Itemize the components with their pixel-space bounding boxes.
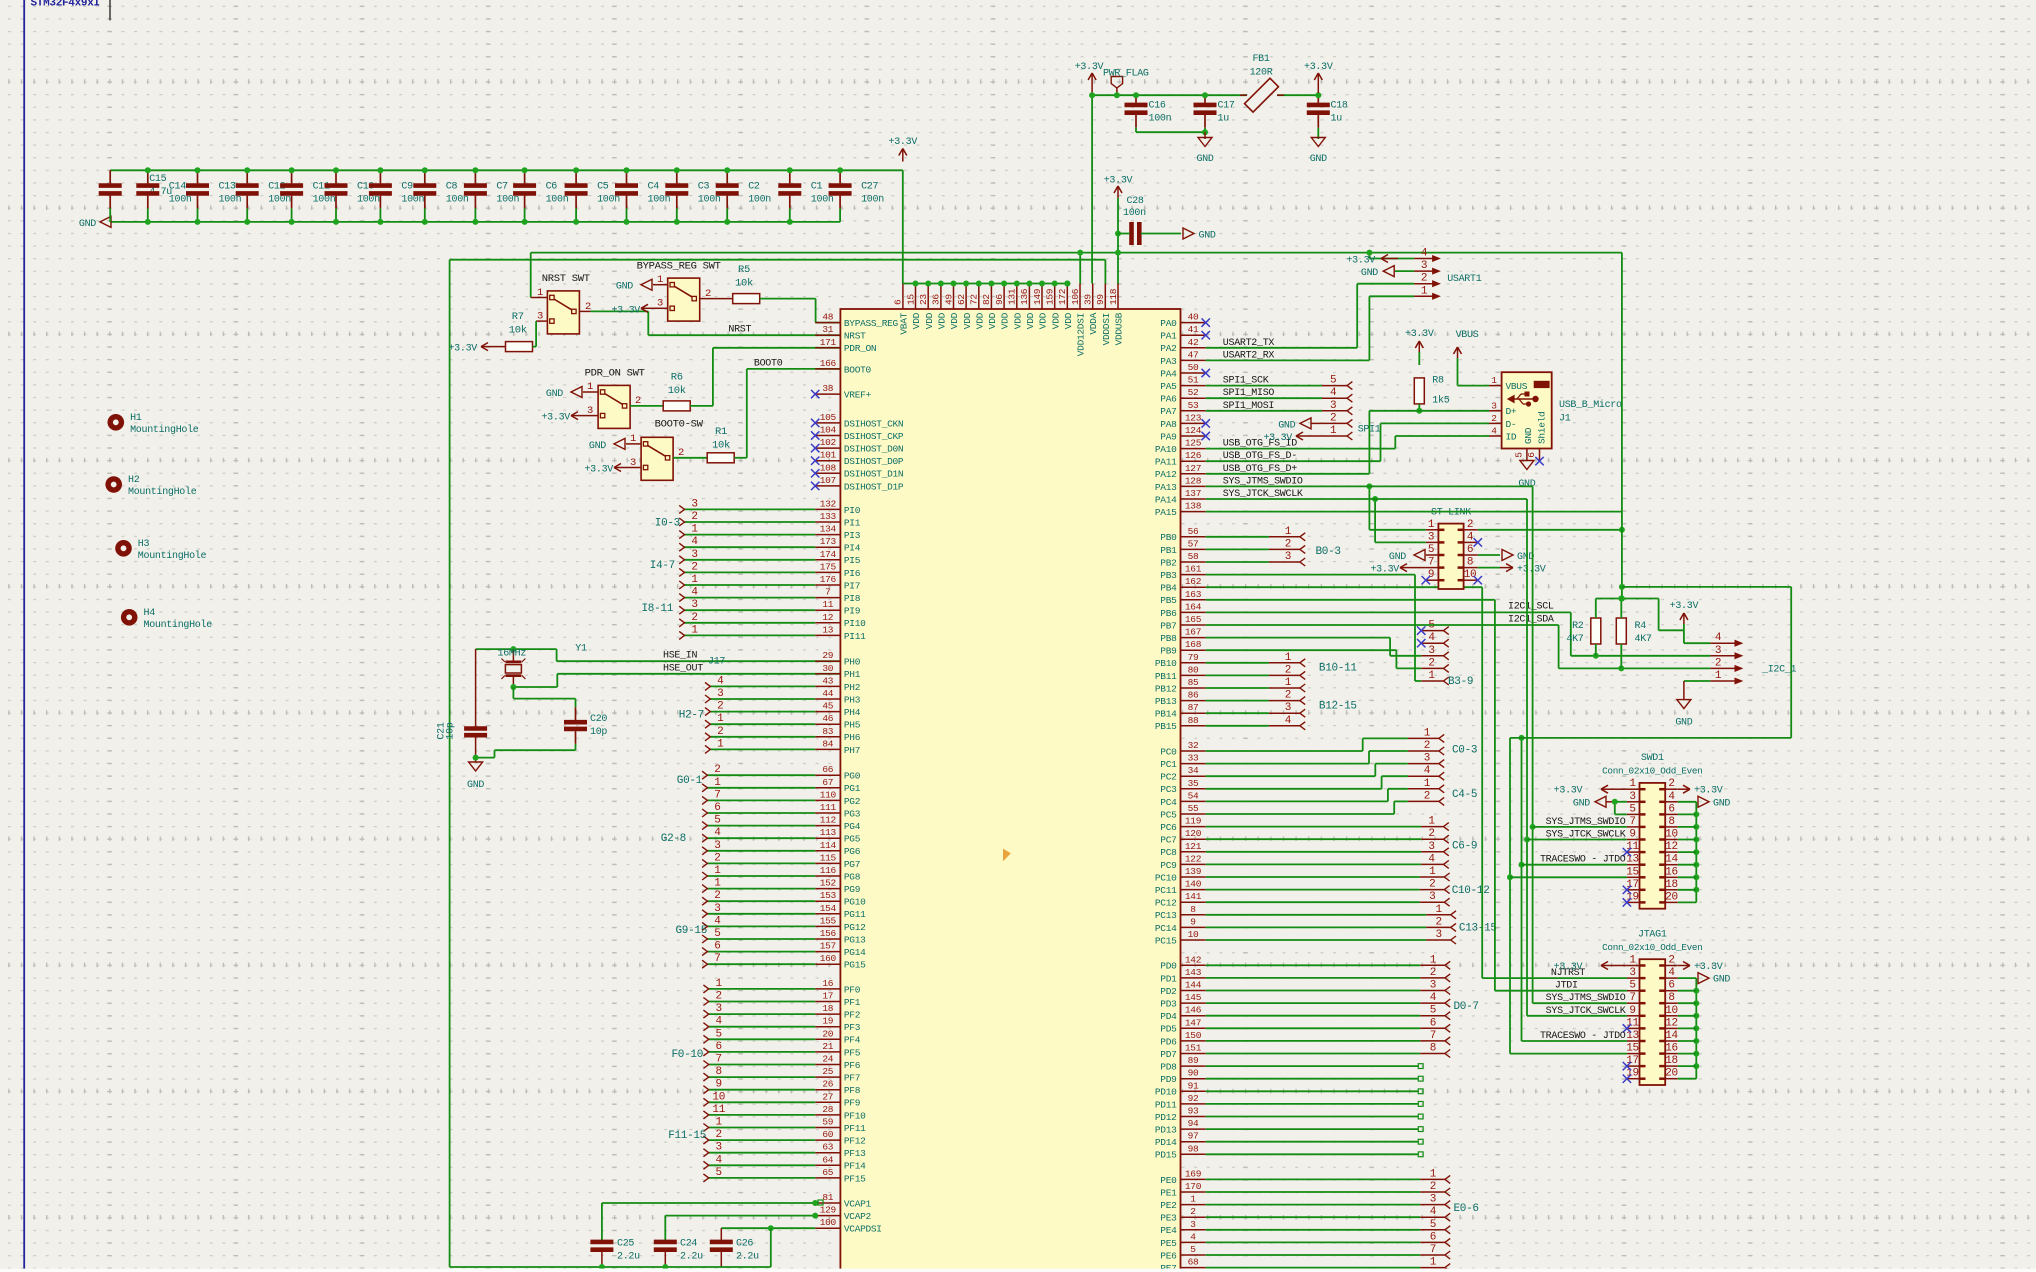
svg-text:168: 168 (1185, 639, 1202, 650)
svg-text:6: 6 (893, 299, 904, 305)
svg-text:PE2: PE2 (1160, 1200, 1177, 1211)
svg-text:4: 4 (1190, 1231, 1196, 1242)
svg-text:160: 160 (820, 953, 837, 964)
svg-text:H2: H2 (128, 475, 140, 486)
svg-text:GND: GND (1573, 798, 1590, 809)
svg-text:4: 4 (714, 915, 721, 927)
svg-text:PC2: PC2 (1160, 772, 1177, 783)
svg-text:5: 5 (1428, 544, 1434, 556)
svg-text:64: 64 (822, 1154, 833, 1165)
svg-text:104: 104 (820, 425, 837, 436)
svg-text:129: 129 (820, 1205, 837, 1216)
svg-text:13: 13 (1626, 854, 1639, 866)
svg-text:+3.3V: +3.3V (889, 137, 918, 148)
svg-text:R4: R4 (1635, 621, 1647, 632)
svg-text:122: 122 (1185, 853, 1202, 864)
svg-text:4: 4 (1467, 531, 1474, 543)
svg-text:100n: 100n (546, 195, 569, 206)
svg-text:176: 176 (820, 574, 837, 585)
svg-text:72: 72 (969, 294, 980, 305)
svg-text:+3.3V: +3.3V (1075, 62, 1104, 73)
svg-text:150: 150 (1185, 1030, 1202, 1041)
svg-text:8: 8 (1190, 904, 1196, 915)
svg-text:56: 56 (1188, 526, 1199, 537)
svg-text:1: 1 (717, 713, 724, 725)
svg-text:PC8: PC8 (1160, 847, 1177, 858)
svg-text:100n: 100n (698, 195, 721, 206)
svg-text:PC4: PC4 (1160, 797, 1177, 808)
svg-text:5: 5 (714, 815, 720, 827)
svg-text:1: 1 (1421, 285, 1428, 297)
svg-text:107: 107 (820, 475, 836, 486)
svg-text:10: 10 (1665, 829, 1678, 841)
svg-text:6: 6 (714, 802, 720, 814)
svg-text:C6: C6 (546, 182, 558, 193)
svg-text:VDDA: VDDA (1088, 312, 1099, 334)
svg-text:140: 140 (1185, 879, 1202, 890)
svg-text:43: 43 (822, 675, 833, 686)
svg-text:8: 8 (716, 1066, 722, 1078)
svg-text:GND: GND (1278, 420, 1295, 431)
svg-text:106: 106 (1070, 288, 1081, 305)
svg-text:2: 2 (1424, 790, 1430, 802)
svg-text:PH2: PH2 (844, 682, 861, 693)
svg-text:97: 97 (1188, 1131, 1199, 1142)
svg-text:PH5: PH5 (844, 720, 861, 731)
svg-text:4: 4 (714, 827, 721, 839)
svg-text:PA4: PA4 (1160, 368, 1177, 379)
svg-text:GND: GND (1523, 427, 1534, 444)
svg-text:PG3: PG3 (844, 808, 861, 819)
svg-text:1: 1 (714, 777, 721, 789)
svg-text:4: 4 (1421, 248, 1428, 260)
svg-text:PB5: PB5 (1160, 595, 1177, 606)
svg-text:9: 9 (1629, 829, 1635, 841)
svg-text:PB3: PB3 (1160, 570, 1177, 581)
svg-text:3: 3 (1421, 260, 1427, 272)
svg-text:6: 6 (1430, 1017, 1436, 1029)
svg-text:87: 87 (1188, 702, 1199, 713)
svg-text:119: 119 (1185, 816, 1202, 827)
svg-text:VDD12DSI: VDD12DSI (1076, 313, 1087, 356)
svg-text:1u: 1u (1218, 114, 1230, 125)
svg-text:1: 1 (691, 524, 698, 536)
svg-text:F11-15: F11-15 (668, 1130, 706, 1142)
svg-text:PF2: PF2 (844, 1010, 861, 1021)
svg-text:J1: J1 (1559, 414, 1571, 425)
svg-text:PDR_ON SWT: PDR_ON SWT (585, 368, 645, 380)
svg-text:I0-3: I0-3 (655, 518, 680, 530)
svg-text:5: 5 (1430, 1005, 1436, 1017)
svg-text:PD8: PD8 (1160, 1062, 1177, 1073)
svg-text:PI6: PI6 (844, 568, 861, 579)
svg-text:1: 1 (717, 738, 724, 750)
svg-text:G2-8: G2-8 (661, 833, 686, 845)
svg-text:STM32F4x9xI: STM32F4x9xI (31, 0, 100, 10)
svg-text:4: 4 (1668, 967, 1675, 979)
svg-text:2: 2 (1429, 879, 1435, 891)
svg-text:40: 40 (1188, 312, 1199, 323)
svg-text:PF3: PF3 (844, 1022, 861, 1033)
svg-text:C4-5: C4-5 (1452, 789, 1477, 801)
svg-text:D0-7: D0-7 (1454, 1001, 1479, 1013)
svg-text:10k: 10k (668, 385, 686, 397)
svg-text:6: 6 (716, 1041, 722, 1053)
svg-text:2: 2 (1491, 413, 1497, 424)
svg-text:13: 13 (822, 624, 833, 635)
svg-text:PC10: PC10 (1155, 872, 1177, 883)
svg-text:166: 166 (820, 358, 837, 369)
svg-text:PH3: PH3 (844, 694, 861, 705)
svg-text:154: 154 (820, 903, 837, 914)
svg-text:H4: H4 (144, 608, 156, 619)
svg-text:96: 96 (994, 294, 1005, 305)
svg-text:26: 26 (822, 1079, 833, 1090)
svg-text:VDD: VDD (1050, 312, 1061, 329)
svg-text:2: 2 (717, 726, 723, 738)
svg-text:7: 7 (1430, 1244, 1436, 1256)
svg-text:45: 45 (822, 701, 833, 712)
svg-text:PG5: PG5 (844, 834, 861, 845)
svg-text:1k5: 1k5 (1432, 395, 1449, 407)
svg-text:PE5: PE5 (1160, 1238, 1177, 1249)
svg-text:34: 34 (1188, 765, 1199, 776)
svg-text:C16: C16 (1149, 101, 1166, 112)
svg-text:+3.3V: +3.3V (1554, 786, 1583, 797)
svg-text:39: 39 (1083, 294, 1094, 305)
svg-text:4: 4 (1491, 426, 1497, 437)
svg-text:VDD: VDD (911, 312, 922, 329)
svg-text:VDD: VDD (1063, 312, 1074, 329)
svg-text:PC13: PC13 (1155, 910, 1177, 921)
svg-text:137: 137 (1185, 488, 1201, 499)
svg-text:2.2u: 2.2u (617, 1252, 640, 1263)
svg-text:100n: 100n (268, 195, 291, 206)
svg-text:25: 25 (822, 1066, 833, 1077)
svg-text:SYS_JTCK_SWCLK: SYS_JTCK_SWCLK (1546, 1006, 1626, 1017)
svg-text:PG1: PG1 (844, 783, 861, 794)
svg-text:4: 4 (1668, 791, 1675, 803)
svg-text:PD5: PD5 (1160, 1024, 1177, 1035)
svg-text:PA5: PA5 (1160, 381, 1177, 392)
svg-text:PD2: PD2 (1160, 986, 1177, 997)
svg-text:10k: 10k (509, 325, 527, 337)
svg-text:PF14: PF14 (844, 1161, 866, 1172)
svg-text:PI4: PI4 (844, 543, 861, 554)
svg-text:59: 59 (822, 1117, 833, 1128)
svg-text:PF15: PF15 (844, 1173, 866, 1184)
svg-text:1: 1 (1424, 778, 1431, 790)
svg-text:PB15: PB15 (1155, 721, 1177, 732)
svg-text:VDD: VDD (974, 312, 985, 329)
svg-text:15: 15 (1626, 866, 1639, 878)
svg-text:PG7: PG7 (844, 859, 860, 870)
svg-text:20: 20 (1665, 891, 1678, 903)
svg-text:PF4: PF4 (844, 1035, 861, 1046)
svg-text:3: 3 (1436, 929, 1442, 941)
svg-text:GND: GND (1713, 798, 1730, 809)
svg-text:159: 159 (1045, 288, 1056, 305)
svg-text:PI3: PI3 (844, 530, 861, 541)
svg-text:18: 18 (1665, 879, 1678, 891)
svg-text:PA14: PA14 (1155, 494, 1177, 505)
svg-text:2: 2 (1285, 538, 1291, 550)
svg-text:PWR_FLAG: PWR_FLAG (1103, 69, 1149, 80)
svg-text:GND: GND (1361, 268, 1378, 279)
svg-text:15: 15 (1626, 1043, 1639, 1055)
svg-text:TRACESWO - JTDO: TRACESWO - JTDO (1540, 855, 1626, 866)
svg-text:125: 125 (1185, 438, 1202, 449)
svg-text:G0-1: G0-1 (677, 775, 703, 787)
svg-text:3: 3 (691, 549, 697, 561)
svg-text:BYPASS_REG: BYPASS_REG (844, 318, 899, 329)
svg-text:4: 4 (691, 536, 698, 548)
svg-text:VDDUSB: VDDUSB (1114, 312, 1125, 345)
svg-text:I2C1_SDA: I2C1_SDA (1508, 615, 1554, 626)
svg-text:21: 21 (822, 1041, 833, 1052)
svg-text:60: 60 (822, 1129, 833, 1140)
svg-text:1: 1 (1285, 652, 1292, 664)
svg-text:F0-10: F0-10 (671, 1049, 703, 1061)
svg-text:C18: C18 (1331, 101, 1348, 112)
svg-text:14: 14 (1665, 1030, 1678, 1042)
svg-text:JTAG1: JTAG1 (1638, 930, 1667, 941)
svg-text:GND: GND (589, 441, 606, 452)
svg-text:C25: C25 (617, 1239, 634, 1250)
svg-text:PE0: PE0 (1160, 1175, 1177, 1186)
svg-text:2: 2 (691, 612, 697, 624)
svg-text:50: 50 (1188, 362, 1199, 373)
svg-text:DSIHOST_D0N: DSIHOST_D0N (844, 444, 903, 455)
svg-text:142: 142 (1185, 954, 1202, 965)
svg-text:11: 11 (712, 1104, 725, 1116)
svg-text:7: 7 (714, 953, 720, 965)
svg-text:93: 93 (1188, 1106, 1199, 1117)
svg-text:NRST SWT: NRST SWT (542, 273, 590, 285)
svg-text:PH0: PH0 (844, 657, 861, 668)
svg-text:3: 3 (1430, 980, 1436, 992)
svg-text:PE1: PE1 (1160, 1187, 1177, 1198)
svg-text:6: 6 (1430, 1231, 1436, 1243)
svg-text:12: 12 (1665, 841, 1678, 853)
svg-text:5: 5 (1330, 375, 1336, 387)
svg-text:3: 3 (691, 599, 697, 611)
svg-text:152: 152 (820, 878, 837, 889)
svg-text:PI9: PI9 (844, 606, 861, 617)
svg-text:2: 2 (1424, 740, 1430, 752)
svg-text:PA8: PA8 (1160, 419, 1177, 430)
svg-text:R6: R6 (671, 372, 683, 384)
svg-text:54: 54 (1188, 790, 1199, 801)
svg-text:PA3: PA3 (1160, 356, 1177, 367)
svg-text:10: 10 (712, 1091, 725, 1103)
svg-text:164: 164 (1185, 601, 1202, 612)
svg-text:VBAT: VBAT (899, 312, 910, 334)
svg-text:PF10: PF10 (844, 1110, 866, 1121)
svg-text:10p: 10p (446, 722, 457, 739)
svg-text:ST-LINK: ST-LINK (1431, 508, 1471, 519)
svg-text:157: 157 (820, 941, 836, 952)
svg-text:+3.3V: +3.3V (584, 465, 613, 476)
svg-text:VREF+: VREF+ (844, 390, 872, 401)
svg-text:NRST: NRST (844, 331, 866, 342)
svg-text:28: 28 (822, 1104, 833, 1115)
svg-text:66: 66 (822, 764, 833, 775)
svg-text:13: 13 (1626, 1030, 1639, 1042)
svg-text:7: 7 (1629, 816, 1635, 828)
svg-text:VDD: VDD (962, 312, 973, 329)
svg-text:FB1: FB1 (1252, 54, 1269, 65)
svg-text:2: 2 (1428, 828, 1434, 840)
svg-text:PI5: PI5 (844, 555, 861, 566)
svg-text:11: 11 (822, 599, 833, 610)
svg-text:1: 1 (1428, 670, 1435, 682)
svg-text:TRACESWO - JTDO: TRACESWO - JTDO (1540, 1031, 1626, 1042)
svg-text:1: 1 (1715, 670, 1722, 682)
svg-text:C10-12: C10-12 (1452, 885, 1490, 897)
svg-text:PC14: PC14 (1155, 923, 1177, 934)
svg-text:C2: C2 (748, 182, 760, 193)
svg-text:100n: 100n (748, 195, 771, 206)
svg-text:PA7: PA7 (1160, 406, 1176, 417)
svg-text:C27: C27 (861, 182, 878, 193)
svg-text:100n: 100n (496, 195, 519, 206)
svg-text:PD6: PD6 (1160, 1036, 1177, 1047)
svg-text:47: 47 (1188, 349, 1199, 360)
svg-text:123: 123 (1185, 412, 1202, 423)
svg-text:PC15: PC15 (1155, 935, 1177, 946)
svg-text:DSIHOST_D1P: DSIHOST_D1P (844, 481, 904, 492)
svg-text:3: 3 (1190, 1219, 1196, 1230)
svg-text:3: 3 (1330, 400, 1336, 412)
svg-text:162: 162 (1185, 576, 1202, 587)
svg-text:10p: 10p (590, 727, 607, 738)
svg-text:12: 12 (1665, 1017, 1678, 1029)
svg-text:9: 9 (1629, 1005, 1635, 1017)
svg-text:PF5: PF5 (844, 1047, 861, 1058)
svg-text:81: 81 (822, 1192, 833, 1203)
svg-text:67: 67 (822, 777, 833, 788)
svg-text:C8: C8 (446, 182, 458, 193)
svg-text:2: 2 (1436, 916, 1442, 928)
svg-text:4: 4 (1430, 992, 1437, 1004)
svg-text:PD14: PD14 (1155, 1137, 1177, 1148)
svg-text:144: 144 (1185, 980, 1202, 991)
svg-text:D-: D- (1506, 419, 1517, 430)
svg-text:2: 2 (717, 701, 723, 713)
svg-text:3: 3 (1430, 1194, 1436, 1206)
svg-text:PB11: PB11 (1155, 671, 1177, 682)
svg-text:PC0: PC0 (1160, 746, 1177, 757)
svg-text:PG0: PG0 (844, 771, 861, 782)
svg-text:141: 141 (1185, 891, 1202, 902)
svg-text:100: 100 (820, 1217, 837, 1228)
svg-text:2: 2 (714, 890, 720, 902)
svg-text:51: 51 (1188, 375, 1199, 386)
svg-text:PC6: PC6 (1160, 822, 1177, 833)
svg-text:6: 6 (1467, 544, 1473, 556)
svg-text:PA12: PA12 (1155, 469, 1177, 480)
svg-text:65: 65 (822, 1167, 833, 1178)
svg-text:PC7: PC7 (1160, 835, 1176, 846)
svg-text:GND: GND (1713, 975, 1730, 986)
svg-text:+3.3V: +3.3V (1694, 786, 1723, 797)
svg-text:4: 4 (1285, 715, 1292, 727)
svg-text:PI1: PI1 (844, 517, 861, 528)
svg-text:10: 10 (1665, 1005, 1678, 1017)
svg-text:DSIHOST_CKN: DSIHOST_CKN (844, 418, 903, 429)
svg-text:B12-15: B12-15 (1319, 701, 1357, 713)
svg-text:19: 19 (822, 1016, 833, 1027)
svg-text:121: 121 (1185, 841, 1202, 852)
svg-text:R5: R5 (738, 264, 750, 276)
svg-text:PB14: PB14 (1155, 709, 1177, 720)
svg-text:4: 4 (1715, 632, 1722, 644)
svg-text:100n: 100n (1149, 114, 1172, 125)
svg-text:9: 9 (716, 1079, 722, 1091)
svg-text:I2C1_SCL: I2C1_SCL (1508, 602, 1554, 613)
svg-text:1: 1 (1629, 778, 1636, 790)
svg-text:172: 172 (1057, 288, 1068, 305)
svg-text:3: 3 (1629, 967, 1635, 979)
svg-text:6: 6 (714, 941, 720, 953)
svg-text:PG14: PG14 (844, 947, 866, 958)
svg-text:DSIHOST_D1N: DSIHOST_D1N (844, 469, 903, 480)
svg-text:PA15: PA15 (1155, 507, 1177, 518)
svg-text:PB4: PB4 (1160, 583, 1177, 594)
svg-text:PD11: PD11 (1155, 1099, 1177, 1110)
svg-text:PB8: PB8 (1160, 633, 1177, 644)
svg-text:3: 3 (1428, 531, 1434, 543)
svg-text:5: 5 (1190, 1244, 1196, 1255)
svg-text:PA2: PA2 (1160, 343, 1177, 354)
svg-text:BOOT0: BOOT0 (754, 359, 783, 370)
svg-text:57: 57 (1188, 538, 1199, 549)
svg-text:PC9: PC9 (1160, 860, 1177, 871)
svg-text:3: 3 (714, 903, 720, 915)
svg-text:PF13: PF13 (844, 1148, 866, 1159)
svg-text:5: 5 (1629, 803, 1635, 815)
svg-text:VDD: VDD (1025, 312, 1036, 329)
svg-text:+3.3V: +3.3V (611, 305, 640, 316)
svg-text:3: 3 (716, 1142, 722, 1154)
svg-text:DSIHOST_D0P: DSIHOST_D0P (844, 456, 904, 467)
svg-text:PB7: PB7 (1160, 620, 1176, 631)
svg-text:PG10: PG10 (844, 897, 866, 908)
svg-text:42: 42 (1188, 337, 1199, 348)
svg-text:BOOT0-SW: BOOT0-SW (655, 419, 704, 431)
svg-text:PF6: PF6 (844, 1060, 861, 1071)
svg-text:124: 124 (1185, 425, 1202, 436)
svg-text:PF9: PF9 (844, 1098, 861, 1109)
svg-text:29: 29 (822, 650, 833, 661)
svg-text:2.2u: 2.2u (680, 1252, 703, 1263)
svg-text:6: 6 (1668, 980, 1674, 992)
svg-text:PC11: PC11 (1155, 885, 1177, 896)
svg-text:18: 18 (1665, 1055, 1678, 1067)
svg-text:1: 1 (1430, 1168, 1437, 1180)
svg-text:VDD: VDD (1038, 312, 1049, 329)
svg-text:100n: 100n (219, 195, 242, 206)
svg-text:33: 33 (1188, 753, 1199, 764)
svg-text:116: 116 (820, 865, 837, 876)
svg-text:4: 4 (717, 675, 724, 687)
svg-text:46: 46 (822, 713, 833, 724)
svg-text:3: 3 (1285, 702, 1291, 714)
svg-text:E0-6: E0-6 (1454, 1203, 1479, 1215)
svg-text:R8: R8 (1432, 376, 1444, 387)
svg-text:PI7: PI7 (844, 580, 860, 591)
